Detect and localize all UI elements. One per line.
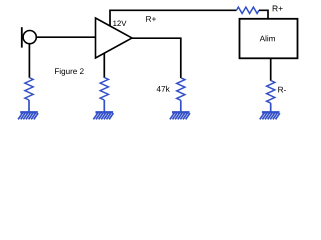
op-amp U1	[96, 18, 133, 58]
label R+ (rail)	[146, 16, 156, 22]
microphone M1	[22, 27, 37, 47]
wire left resistor to ground	[28, 100, 30, 112]
wire op-amp output to 47k resistor	[132, 38, 181, 78]
label Figure 2	[55, 68, 84, 76]
label Alim	[260, 35, 275, 41]
resistor mid	[100, 78, 108, 101]
label 12V	[113, 21, 126, 26]
wire R- resistor to ground	[270, 103, 272, 112]
label R+ (right)	[273, 6, 283, 12]
wire mic to op-amp input	[36, 36, 95, 38]
ground left	[18, 112, 38, 119]
wire 47k resistor to ground	[180, 100, 182, 112]
resistor R-	[267, 81, 275, 104]
resistor 47k	[177, 78, 185, 101]
wire R+ to Alim box	[259, 10, 268, 18]
wire op-amp inverting input down to mid resistor	[103, 53, 105, 77]
wire mic down to left resistor	[28, 44, 30, 78]
ground 47k	[170, 112, 190, 119]
wire mid resistor to ground	[103, 100, 105, 112]
resistor R+	[237, 7, 260, 13]
ground right	[260, 112, 280, 119]
ground mid	[93, 112, 113, 119]
wire Alim to R- resistor	[270, 58, 272, 80]
label 47k	[157, 86, 170, 92]
wire op-amp top to 12V rail	[110, 10, 237, 26]
Alim box	[240, 19, 298, 59]
resistor left	[25, 78, 33, 101]
label R-	[278, 87, 286, 93]
